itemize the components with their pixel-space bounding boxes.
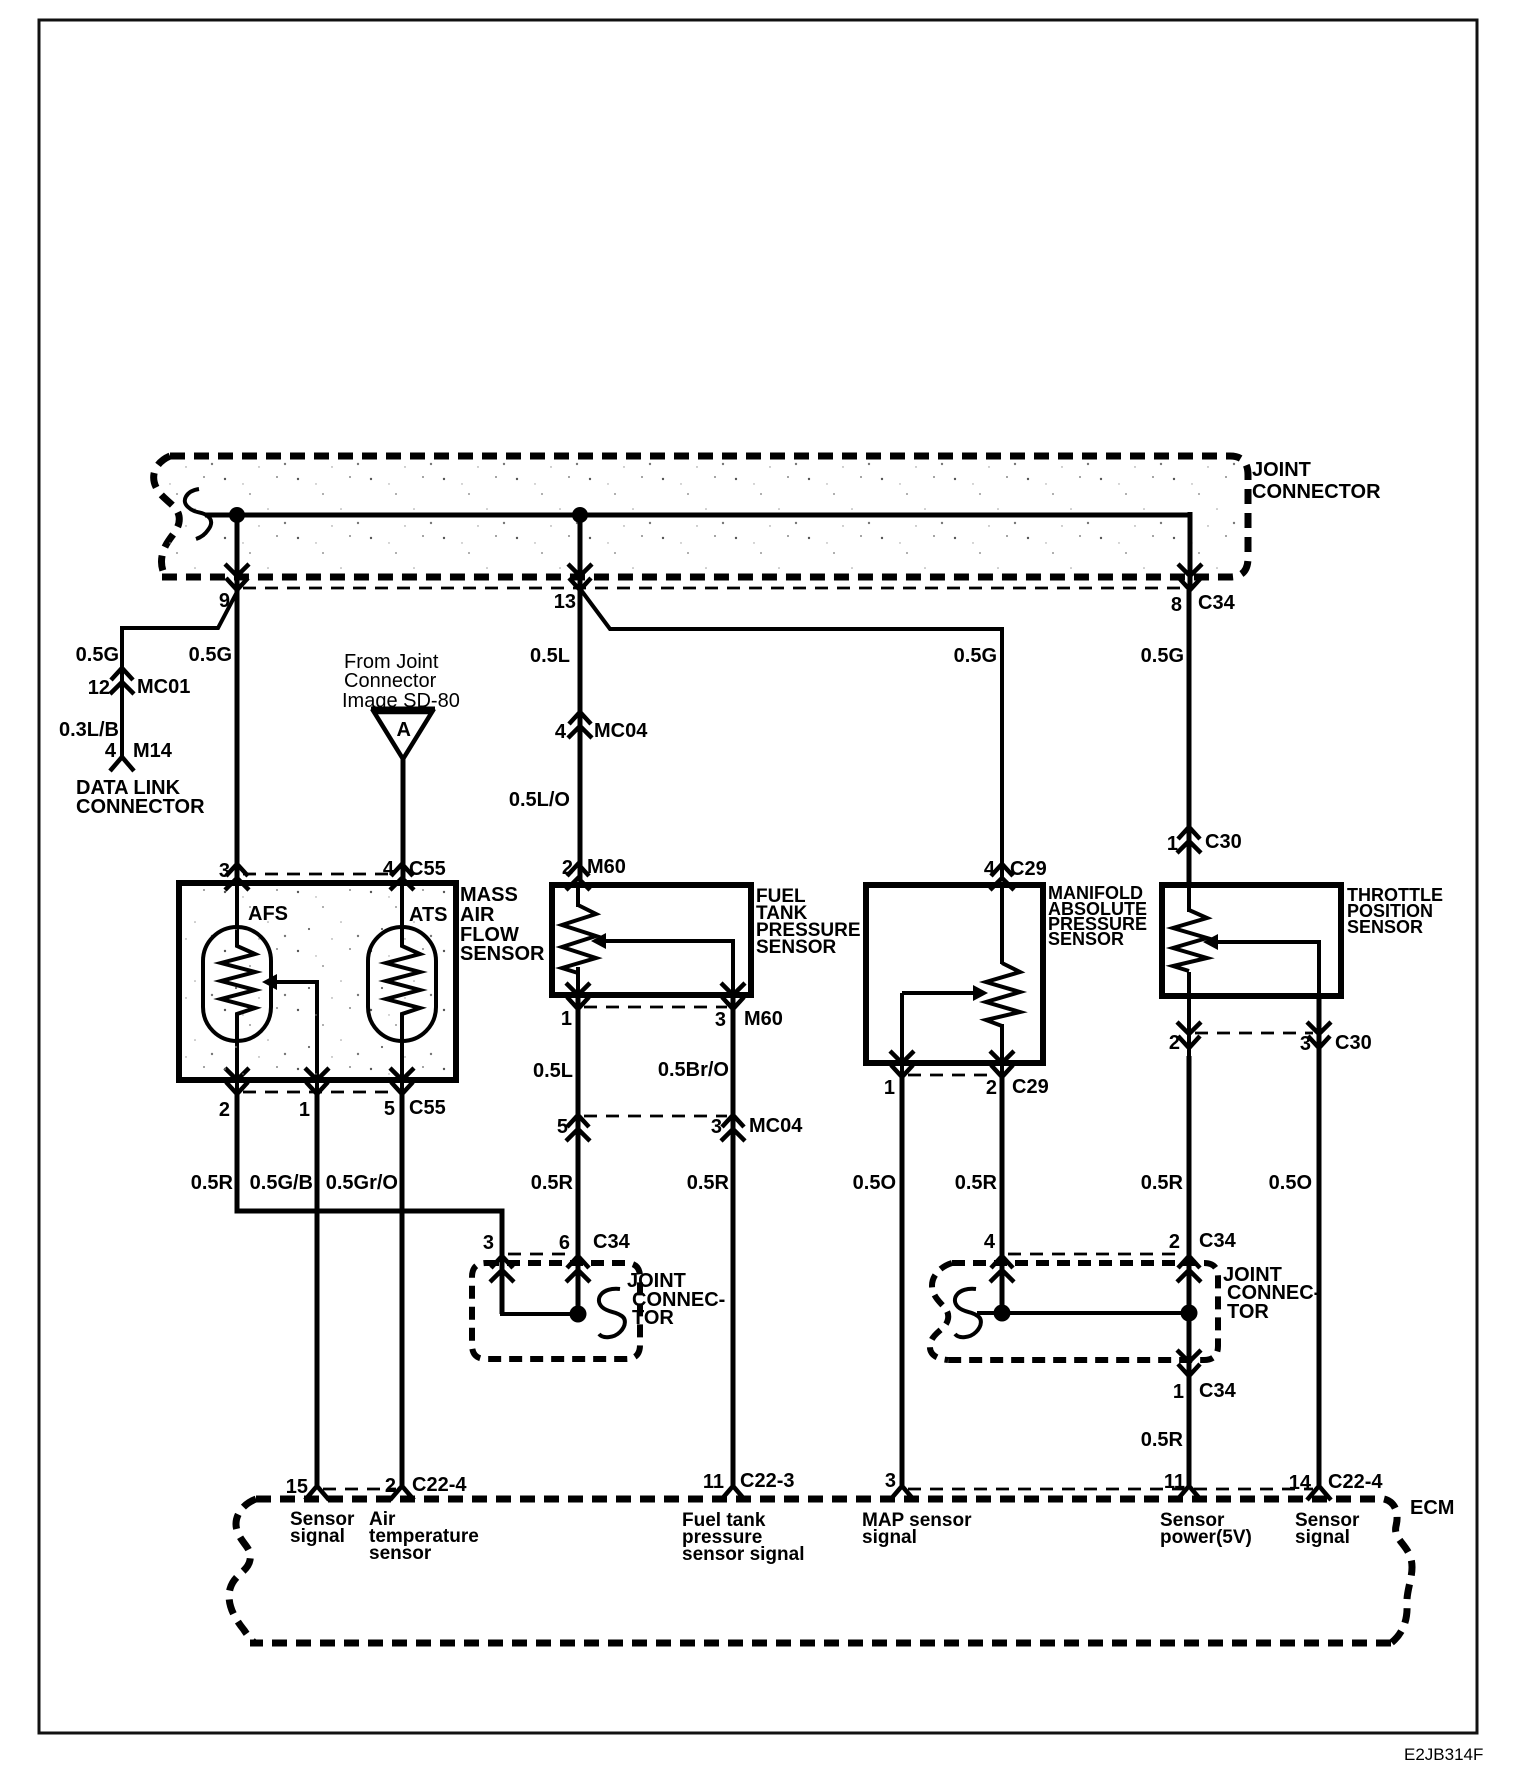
wire AFS resistor to pin 2	[235, 1014, 239, 1092]
svg-text:C22-4: C22-4	[412, 1474, 467, 1496]
svg-text:6: 6	[559, 1232, 570, 1254]
connector M14 pin 4 wire end	[110, 757, 134, 771]
wire MAP wiper to pin 1	[902, 993, 976, 1075]
connector MC01 pin 12	[110, 668, 134, 694]
connector C30 pin 2 below TPS	[1177, 1022, 1201, 1048]
wire 0.5L from connector 13 down to M60 pin 2	[578, 590, 583, 880]
MAP wiper arrow	[973, 985, 988, 1001]
wire 0.5L from triangle A down to C55 pin 4	[401, 757, 406, 880]
wire 0.5G from connector 8 down to TPS pin 1 C30	[1187, 590, 1192, 885]
resistor FTPS	[562, 905, 596, 973]
connector C34 pin 2 right joint connector	[1177, 1256, 1201, 1282]
svg-text:C29: C29	[1010, 858, 1047, 880]
fuel tank pressure sensor box	[552, 885, 751, 995]
svg-text:0.5L: 0.5L	[530, 645, 570, 667]
connector C55 pin 4 at MAFS	[390, 864, 414, 890]
wire drop to connector 13	[578, 515, 583, 590]
svg-text:12: 12	[88, 677, 110, 699]
svg-text:0.5R: 0.5R	[191, 1172, 234, 1194]
wire 0.5G branch from connector 13 to MAP sensor pin 4	[581, 590, 1002, 880]
connector C34 pin 6 left joint connector	[566, 1256, 590, 1282]
svg-text:AFS: AFS	[248, 903, 288, 925]
wire MAP resistor to pin 2	[1000, 1024, 1004, 1075]
svg-text:TOR: TOR	[632, 1307, 674, 1329]
svg-text:1: 1	[561, 1008, 572, 1030]
svg-text:9: 9	[219, 590, 230, 612]
thin dashed row MC04 connectors	[584, 1115, 727, 1118]
svg-text:8: 8	[1171, 594, 1182, 616]
svg-text:11: 11	[1164, 1471, 1185, 1493]
connector ECM pin 15	[305, 1486, 329, 1500]
AFS element stadium	[203, 927, 271, 1041]
svg-text:3: 3	[483, 1232, 494, 1254]
svg-text:C34: C34	[593, 1231, 631, 1253]
connector ECM pin 11 C22-3	[721, 1486, 745, 1500]
svg-text:C55: C55	[409, 858, 446, 880]
thin dashed row ECM pins 3-11-14	[908, 1488, 1313, 1491]
wire ATS pin 4 into resistor	[400, 885, 404, 944]
wire AFS wiper to pin 1	[272, 982, 317, 1092]
connector C55 pin 3 at MAFS	[225, 864, 249, 890]
svg-text:3: 3	[711, 1116, 722, 1138]
connector C55 pin 1 at MAFS bottom	[305, 1068, 329, 1094]
node junction dot right joint connector left	[994, 1305, 1011, 1322]
joint connector (top) shading	[166, 462, 1242, 572]
connector C29 pin 1 at MAP bottom	[890, 1051, 914, 1077]
svg-text:MC01: MC01	[137, 676, 190, 698]
svg-text:TOR: TOR	[1227, 1301, 1269, 1323]
svg-text:13: 13	[554, 591, 576, 613]
wire 0.5R from AFS pin 2 to left joint connector pin 3	[237, 1092, 502, 1314]
wire AFS pin 3 into resistor	[235, 885, 239, 944]
ECM dashed box	[229, 1499, 1412, 1643]
thin dashed row C30 connectors below TPS	[1195, 1032, 1313, 1035]
svg-text:0.3L/B: 0.3L/B	[59, 719, 119, 741]
svg-text:0.5R: 0.5R	[1141, 1172, 1184, 1194]
node junction dot at pin 13	[572, 507, 588, 523]
mass air flow sensor box	[179, 883, 456, 1080]
svg-text:SENSOR: SENSOR	[1048, 929, 1124, 949]
wire 0.5Gr/O from pin 5 to ECM pin 2	[400, 1092, 405, 1486]
node junction dot at pin 9	[229, 507, 245, 523]
ATS element stadium	[368, 927, 436, 1041]
wire bus inside top joint connector	[205, 513, 1190, 518]
wire left joint connector internal from pin 3 to junction	[502, 1290, 578, 1314]
svg-text:C30: C30	[1205, 831, 1242, 853]
svg-text:1: 1	[1173, 1381, 1184, 1403]
FTPS wiper arrow	[591, 933, 606, 949]
connector C30 pin 3 below TPS	[1307, 1022, 1331, 1048]
manifold absolute pressure sensor box	[866, 885, 1043, 1063]
connector pin 3 left joint connector	[490, 1256, 514, 1282]
svg-text:0.5R: 0.5R	[1141, 1429, 1184, 1451]
svg-text:M60: M60	[587, 856, 626, 878]
thin dashed row FTPS bottom pins	[584, 1006, 727, 1009]
svg-text:Image SD-80: Image SD-80	[342, 690, 460, 712]
svg-text:sensor signal: sensor signal	[682, 1544, 805, 1565]
wire TPS wiper to pin 3	[1217, 942, 1319, 996]
wire 0.5Br/O from FTPS pin 3 through MC04 pin 3 to ECM pin 11	[731, 995, 736, 1486]
connector 9 (top joint connector output)	[225, 564, 249, 590]
connector 8 C34 (top joint connector output)	[1178, 564, 1202, 590]
throttle position sensor box	[1162, 885, 1341, 996]
right joint connector torn-edge curl	[955, 1289, 981, 1337]
svg-text:A: A	[397, 719, 411, 741]
TPS wiper arrow	[1203, 934, 1218, 950]
svg-text:3: 3	[1300, 1033, 1311, 1055]
triangle A from joint connector image SD-80	[371, 707, 435, 712]
wire 0.5O from MAP pin 1 to ECM pin 3	[900, 1075, 905, 1486]
svg-text:0.5O: 0.5O	[853, 1172, 896, 1194]
thin dashed row left joint connector pins	[508, 1253, 572, 1256]
connector ECM pin 14 C22-4	[1307, 1486, 1331, 1500]
wire TPS pin 1 into resistor	[1187, 885, 1191, 912]
wire ATS resistor to pin 5	[400, 1014, 404, 1092]
connector MC04 pin 4	[568, 712, 592, 738]
svg-text:MASS: MASS	[460, 884, 518, 906]
svg-text:2: 2	[219, 1099, 230, 1121]
svg-text:4: 4	[555, 721, 567, 743]
svg-text:ECM: ECM	[1410, 1497, 1454, 1519]
svg-text:3: 3	[885, 1470, 896, 1492]
wire 0.5R from TPS pin 2 through C34 pin 2 joint connector to ECM pin 11	[1187, 1056, 1192, 1486]
connector C30 pin 1 above TPS	[1177, 827, 1201, 853]
svg-text:C22-4: C22-4	[1328, 1471, 1383, 1493]
svg-text:SENSOR: SENSOR	[460, 943, 545, 965]
wire MAP pin 4 into resistor	[1000, 885, 1004, 964]
wire 0.5G branch from connector 9 to data link connector	[122, 590, 238, 757]
svg-text:CONNECTOR: CONNECTOR	[76, 796, 205, 818]
resistor ATS	[386, 940, 420, 1020]
svg-text:sensor: sensor	[369, 1543, 432, 1564]
svg-text:0.5G: 0.5G	[76, 644, 119, 666]
svg-text:5: 5	[384, 1098, 395, 1120]
wire 0.5G from connector 9 down to AFS pin 3	[235, 590, 240, 880]
svg-text:SENSOR: SENSOR	[1347, 917, 1423, 937]
svg-text:0.5Br/O: 0.5Br/O	[658, 1059, 729, 1081]
svg-text:ATS: ATS	[409, 904, 448, 926]
connector C34 pin 1 below right joint connector	[1177, 1350, 1201, 1376]
svg-text:0.5Gr/O: 0.5Gr/O	[326, 1172, 398, 1194]
svg-text:0.5G/B: 0.5G/B	[250, 1172, 313, 1194]
resistor TPS	[1173, 910, 1207, 971]
svg-text:5: 5	[557, 1116, 568, 1138]
connector ECM pin 3	[890, 1486, 914, 1500]
thin dashed row right joint connector pins	[1008, 1253, 1183, 1256]
wire 0.5O from TPS pin 3 to ECM pin 14	[1317, 1056, 1322, 1486]
thin dashed connector row under top joint connector	[243, 587, 1185, 590]
svg-text:1: 1	[884, 1077, 895, 1099]
svg-text:C34: C34	[1199, 1380, 1237, 1402]
joint connector (top) dashed outline	[154, 456, 1248, 577]
svg-text:AIR: AIR	[460, 904, 495, 926]
svg-text:M60: M60	[744, 1008, 783, 1030]
wire right joint connector internal bus	[977, 1311, 1189, 1315]
wire 0.5L from FTPS pin 1 to MC04 pin 5 and 0.5R to joint connector pin 6 C34	[576, 995, 581, 1314]
svg-text:0.5O: 0.5O	[1269, 1172, 1312, 1194]
svg-text:signal: signal	[290, 1526, 345, 1547]
connector M60 pin 1 at FTPS bottom	[566, 983, 590, 1009]
connector MC04 pin 3	[721, 1115, 745, 1141]
wire FTPS wiper to pin 3	[604, 941, 733, 995]
svg-text:C55: C55	[409, 1097, 446, 1119]
wire drop to connector 8 C34	[1188, 512, 1193, 590]
wire TPS resistor to pin 2	[1187, 972, 1191, 1056]
wire TPS pin 3 below box	[1317, 996, 1322, 1056]
wire drop to connector 9	[235, 515, 240, 590]
svg-text:0.5L/O: 0.5L/O	[509, 789, 570, 811]
svg-text:MC04: MC04	[594, 720, 648, 742]
connector C29 pin 2 at MAP bottom	[990, 1051, 1014, 1077]
node junction dot in left joint connector	[570, 1306, 587, 1323]
svg-text:0.5G: 0.5G	[189, 644, 232, 666]
thin dashed row MAP bottom pins	[908, 1074, 996, 1077]
svg-text:14: 14	[1289, 1472, 1312, 1494]
svg-text:C29: C29	[1012, 1076, 1049, 1098]
svg-text:signal: signal	[862, 1527, 917, 1548]
svg-text:0.5G: 0.5G	[1141, 645, 1184, 667]
left joint connector dashed box	[472, 1263, 640, 1359]
wire M60 pin 2 into FTPS resistor	[576, 885, 580, 907]
connector pin 4 right joint connector	[990, 1256, 1014, 1282]
svg-text:Connector: Connector	[344, 670, 437, 692]
svg-text:4: 4	[984, 858, 996, 880]
wire FTPS resistor to pin 1	[576, 967, 580, 995]
wire 0.5G/B from pin 1 to ECM pin 15	[315, 1092, 320, 1486]
svg-text:JOINT: JOINT	[1252, 459, 1311, 481]
connector 13 (top joint connector output)	[568, 564, 592, 590]
connector ECM pin 11	[1177, 1486, 1201, 1500]
thin dashed row ECM pins 15-2	[323, 1488, 396, 1491]
svg-text:2: 2	[986, 1077, 997, 1099]
svg-text:E2JB314F: E2JB314F	[1404, 1745, 1483, 1764]
svg-text:2: 2	[1169, 1032, 1180, 1054]
connector C55 pin 5 at MAFS bottom	[390, 1068, 414, 1094]
svg-text:0.5R: 0.5R	[531, 1172, 574, 1194]
left joint connector torn-edge curl	[599, 1289, 625, 1337]
svg-text:power(5V): power(5V)	[1160, 1527, 1252, 1548]
svg-text:2: 2	[385, 1475, 396, 1497]
right joint connector dashed box	[930, 1263, 1218, 1360]
svg-text:0.5L: 0.5L	[533, 1060, 573, 1082]
wire 0.5R from MAP pin 2 to right joint connector pin 4	[1000, 1075, 1005, 1313]
svg-text:4: 4	[984, 1231, 996, 1253]
connector C29 pin 4 at MAP top	[990, 864, 1014, 890]
svg-text:3: 3	[219, 860, 230, 882]
svg-text:MC04: MC04	[749, 1115, 803, 1137]
thin dashed row MAFS top pins	[243, 873, 396, 876]
svg-text:15: 15	[286, 1476, 308, 1498]
svg-text:0.5G: 0.5G	[954, 645, 997, 667]
svg-text:signal: signal	[1295, 1527, 1350, 1548]
svg-text:4: 4	[105, 740, 117, 762]
svg-text:1: 1	[1167, 833, 1178, 855]
svg-text:1: 1	[299, 1099, 310, 1121]
svg-text:C34: C34	[1198, 592, 1236, 614]
svg-text:0.5R: 0.5R	[687, 1172, 730, 1194]
thin dashed row MAFS bottom pins	[243, 1091, 396, 1094]
svg-text:M14: M14	[133, 740, 173, 762]
connector ECM pin 2 C22-4	[390, 1486, 414, 1500]
connector MC04 pin 5	[566, 1115, 590, 1141]
joint connector (top) torn-edge curl	[185, 489, 211, 539]
connector M60 pin 3 at FTPS bottom	[721, 983, 745, 1009]
svg-text:0.5R: 0.5R	[955, 1172, 998, 1194]
svg-text:C34: C34	[1199, 1230, 1237, 1252]
node junction dot right joint connector right	[1181, 1305, 1198, 1322]
svg-text:SENSOR: SENSOR	[756, 937, 837, 958]
connector C55 pin 2 at MAFS bottom	[225, 1068, 249, 1094]
svg-text:2: 2	[562, 857, 573, 879]
svg-text:4: 4	[383, 858, 395, 880]
svg-text:CONNECTOR: CONNECTOR	[1252, 481, 1381, 503]
svg-text:C22-3: C22-3	[740, 1470, 794, 1492]
resistor AFS	[221, 940, 255, 1020]
resistor MAP	[986, 963, 1020, 1026]
svg-text:C30: C30	[1335, 1032, 1372, 1054]
svg-text:3: 3	[715, 1009, 726, 1031]
connector M60 pin 2 at FTPS top	[566, 864, 590, 890]
svg-text:2: 2	[1169, 1231, 1180, 1253]
svg-text:11: 11	[703, 1471, 724, 1493]
AFS wiper arrow	[262, 974, 277, 990]
